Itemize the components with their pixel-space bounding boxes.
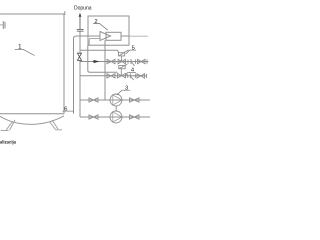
svg-text:Kanalizacija: Kanalizacija (0, 139, 17, 144)
svg-text:6: 6 (64, 106, 67, 112)
svg-text:2: 2 (94, 19, 97, 25)
svg-text:Dopuna: Dopuna (74, 5, 92, 11)
svg-text:5: 5 (132, 46, 135, 52)
